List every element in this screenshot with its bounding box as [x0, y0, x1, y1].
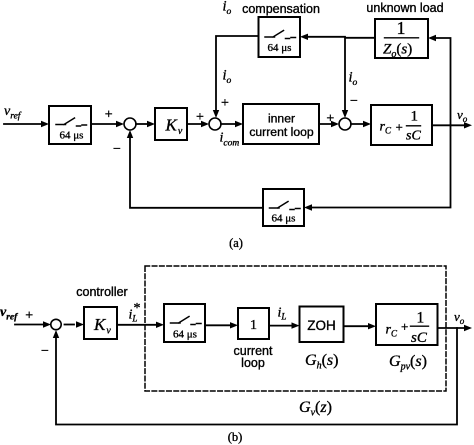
svg-text:unknown load: unknown load — [366, 1, 443, 15]
wire vo down to feedback sampler (a) — [304, 125, 451, 210]
svg-text:vo: vo — [454, 309, 465, 326]
svg-text:+: + — [105, 108, 113, 123]
svg-text:Gv(z): Gv(z) — [299, 399, 332, 419]
svg-text:current loop: current loop — [249, 125, 314, 139]
svg-text:io: io — [349, 70, 358, 89]
block rC + 1/sC (b) — [376, 304, 438, 346]
minus sign at Cb — [41, 344, 49, 359]
svg-text:compensation: compensation — [242, 2, 320, 16]
wire junction to compensation block — [300, 34, 345, 40]
block ZOH — [300, 307, 344, 343]
minus sign at C1 — [113, 142, 121, 157]
svg-text:64 μs: 64 μs — [268, 42, 292, 54]
sampler feedback 64us (a) — [263, 189, 304, 226]
svg-text:−: − — [41, 344, 49, 359]
svg-text:−: − — [350, 94, 358, 109]
svg-text:1: 1 — [250, 318, 257, 333]
wire unity block to ZOH — [269, 322, 300, 328]
label Gpv(s) — [389, 353, 427, 373]
wire vo feedback down and back to Cb — [53, 328, 457, 425]
node icom label — [220, 131, 240, 149]
wire C2 to inner current loop — [221, 121, 243, 127]
svg-text:Gh(s): Gh(s) — [305, 352, 338, 372]
svg-text:+: + — [401, 319, 408, 334]
svg-text:loop: loop — [241, 356, 265, 370]
svg-text:sC: sC — [411, 330, 428, 346]
node io label right branch — [349, 70, 358, 89]
label compensation — [242, 2, 320, 16]
node vref input label (a) — [4, 104, 22, 122]
svg-text:(b): (b) — [228, 430, 243, 444]
svg-text:1: 1 — [417, 310, 425, 327]
summing junction Cb — [51, 319, 61, 329]
caption (b) — [228, 430, 243, 444]
svg-text:ZOH: ZOH — [307, 318, 336, 333]
wire vref to sampler S1 — [4, 121, 49, 127]
wire S1 to summing junction C1 — [91, 121, 124, 127]
wire C3 to plant block — [351, 121, 371, 127]
svg-text:64 μs: 64 μs — [60, 130, 84, 142]
block unity gain 1 — [238, 308, 269, 339]
wire inner loop to summing junction C3 — [319, 121, 339, 127]
node iL label — [278, 306, 287, 322]
label Gh(s) — [305, 352, 338, 372]
wire vref to summing junction Cb — [15, 321, 51, 327]
node vref input label (b) — [0, 305, 18, 323]
dashed box Gv(z) — [145, 266, 446, 391]
svg-text:vo: vo — [457, 107, 468, 124]
caption (a) — [229, 236, 243, 250]
block 1/Zo(s) unknown load — [375, 18, 428, 60]
node io label left branch — [223, 68, 232, 87]
wire ZOH to plant (b) — [344, 323, 377, 329]
summing junction C2 — [209, 118, 221, 130]
label Gv(z) — [299, 399, 332, 419]
wire plant to vo output (b) — [438, 325, 473, 331]
svg-text:+: + — [25, 309, 33, 324]
svg-text:icom: icom — [220, 131, 240, 149]
svg-text:1: 1 — [397, 18, 406, 38]
svg-text:(a): (a) — [229, 236, 243, 250]
wire Kv to summing junction C2 — [187, 121, 209, 127]
summing junction C1 — [124, 118, 136, 130]
svg-text:controller: controller — [76, 285, 127, 299]
wire feedback sampler to C1 — [127, 130, 263, 208]
node iL* label — [129, 301, 141, 324]
svg-text:64 μs: 64 μs — [173, 329, 197, 341]
wire compensation block down to C2 — [213, 36, 259, 118]
svg-text:sC: sC — [406, 129, 421, 144]
plus sign at C2 top — [221, 96, 229, 111]
svg-text:−: − — [113, 142, 121, 157]
label controller — [76, 285, 127, 299]
wire C1 to Kv — [136, 121, 155, 127]
summing junction C3 — [339, 118, 351, 130]
wire vo node up to Zo block — [428, 35, 451, 126]
svg-text:vref: vref — [0, 305, 18, 323]
sampler S1 64us — [49, 106, 91, 144]
label unknown load — [366, 1, 443, 15]
wire Zo output down to C3 — [342, 38, 375, 118]
svg-text:*: * — [134, 301, 141, 316]
svg-text:+: + — [396, 120, 403, 135]
sampler Sb 64us (b) — [164, 304, 205, 342]
wire plant to vo output (a) — [432, 122, 472, 128]
node vo label (a) — [457, 107, 468, 124]
svg-text:Gpv(s): Gpv(s) — [389, 353, 427, 373]
svg-text:iL: iL — [278, 306, 287, 322]
svg-text:io: io — [223, 68, 232, 87]
svg-text:+: + — [221, 96, 229, 111]
block Kv (b) — [84, 307, 117, 339]
svg-text:inner: inner — [268, 112, 295, 126]
block inner current loop — [243, 104, 319, 144]
sampler compensation 64us — [259, 17, 301, 57]
wire Kv to sampler Sb — [117, 322, 164, 328]
node vo label (b) — [454, 309, 465, 326]
svg-text:Zo(s): Zo(s) — [383, 42, 412, 61]
node io label top — [223, 0, 232, 17]
block rC + 1/sC (a) — [371, 105, 432, 145]
minus sign at C3 — [350, 94, 358, 109]
svg-text:64 μs: 64 μs — [272, 213, 296, 225]
wire Cb to Kv dashed — [65, 321, 85, 327]
plus sign at Cb — [25, 309, 33, 324]
label current loop — [234, 344, 273, 370]
svg-text:1: 1 — [411, 109, 419, 125]
svg-text:vref: vref — [4, 104, 22, 122]
wire Sb to unity block — [205, 322, 238, 328]
plus sign at C1 — [105, 108, 113, 123]
svg-text:io: io — [223, 0, 232, 17]
plus sign before C3 — [326, 111, 334, 126]
plus sign after Kv — [196, 110, 204, 125]
block Kv (a) — [155, 108, 187, 140]
